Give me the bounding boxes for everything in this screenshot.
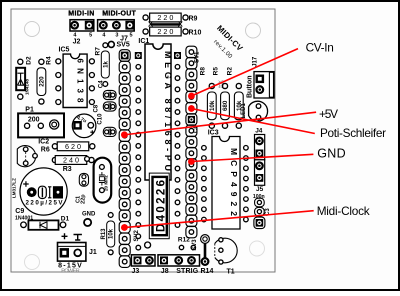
mounting hole top-right [246, 23, 261, 38]
resistor R8 10k [200, 67, 217, 129]
svg-text:3: 3 [115, 33, 118, 39]
ground mark [74, 235, 82, 241]
svg-text:240: 240 [63, 156, 79, 165]
svg-text:R5: R5 [213, 67, 220, 76]
svg-text:Midi-Clock: Midi-Clock [317, 204, 370, 218]
header SV5/SV2 pin column [119, 50, 130, 268]
svg-text:GND: GND [82, 212, 96, 218]
svg-text:IC3: IC3 [208, 129, 219, 136]
DAC IC3 MCP4922 [202, 137, 249, 230]
svg-text:5: 5 [129, 33, 132, 39]
transistor IC2 LM317 [17, 146, 37, 167]
image border frame [0, 0, 400, 2]
IC1 socket left pin column [135, 52, 142, 250]
svg-text:C8: C8 [94, 104, 100, 112]
mounting hole bottom-left [25, 255, 40, 270]
red marker CV-In pad [188, 93, 195, 100]
svg-text:220: 220 [39, 76, 46, 87]
svg-text:R2: R2 [227, 67, 234, 76]
resistor R3 240 [52, 156, 94, 173]
diode D1 1N4001 [15, 215, 69, 229]
IC1 socket right pin column [174, 52, 181, 227]
capacitor C8 [103, 102, 116, 111]
capacitor C9 220u/25V electrolytic [20, 168, 67, 215]
svg-text:T1: T1 [227, 268, 235, 275]
red marker Midi-Clock pad [121, 224, 128, 231]
mounting hole top-left [25, 22, 40, 37]
svg-text:+5V: +5V [319, 107, 338, 121]
connector J4 [255, 128, 265, 160]
solder pad [85, 157, 90, 162]
connector J7 [98, 20, 135, 43]
svg-text:R9: R9 [189, 15, 198, 22]
svg-text:MIDI-IN: MIDI-IN [68, 10, 94, 17]
red marker GND pad [188, 158, 195, 165]
svg-text:1N4148: 1N4148 [25, 78, 30, 95]
svg-text:1k: 1k [104, 61, 110, 68]
resistor R10 220 [143, 27, 201, 36]
button header [254, 72, 274, 98]
connector J8 / STRIG [158, 255, 200, 275]
svg-text:10k: 10k [108, 228, 114, 239]
svg-text:J4: J4 [255, 128, 263, 135]
svg-text:680: 680 [222, 100, 229, 111]
svg-text:IC2: IC2 [38, 138, 49, 145]
resistor R2 10k [227, 67, 244, 129]
svg-text:R4: R4 [46, 56, 53, 65]
svg-text:R3: R3 [63, 166, 72, 173]
svg-text:J2: J2 [73, 39, 81, 46]
callout line +5V [124, 112, 316, 135]
svg-text:220: 220 [157, 27, 173, 36]
svg-text:GND: GND [317, 147, 345, 161]
resistor R9 220 [143, 13, 198, 22]
wire jumper [149, 22, 183, 27]
capacitor C1 22p [75, 173, 88, 204]
svg-text:POWER: POWER [61, 269, 80, 275]
svg-text:IC1: IC1 [138, 38, 149, 45]
callout line GND [191, 154, 313, 161]
connector J5 [255, 160, 265, 193]
resistor R5 680 [213, 67, 230, 129]
callout line Poti-Schleifer [191, 109, 314, 134]
transistor T1 [215, 238, 237, 276]
svg-text:SV5: SV5 [117, 42, 130, 49]
resistor R14 [201, 235, 214, 275]
plus mark [62, 233, 68, 239]
svg-text:220µ/25V: 220µ/25V [26, 200, 64, 207]
barcode label D40226 [149, 173, 169, 239]
PCB board outline [11, 9, 275, 272]
resistor R4 220 [37, 56, 53, 104]
diode D2 1N4148 [16, 56, 32, 99]
svg-text:LM317LZ: LM317LZ [12, 178, 17, 198]
svg-text:C10: C10 [98, 113, 104, 125]
svg-text:R8: R8 [200, 67, 207, 76]
svg-text:Poti-Schleifer: Poti-Schleifer [320, 126, 386, 140]
svg-text:220: 220 [157, 13, 173, 22]
svg-text:C4: C4 [98, 80, 104, 88]
header SV1 pin column [186, 46, 197, 238]
optocoupler IC5 6N138 [56, 54, 95, 107]
svg-text:5: 5 [89, 33, 92, 39]
trimmer P1 200 [18, 107, 64, 138]
mounting hole bottom-right [250, 241, 265, 256]
crystal Q1 20MHz [94, 158, 112, 203]
solder pad [145, 242, 151, 248]
resistor R13 10k [101, 213, 115, 255]
LED LED1 [241, 101, 268, 121]
resistor R12 pads [179, 245, 183, 249]
connector J3 [131, 255, 155, 275]
callout line CV-In [191, 49, 298, 96]
svg-text:Button: Button [247, 75, 254, 98]
svg-text:D2: D2 [26, 56, 33, 65]
microcontroller IC1 MEGA 88/168-PU [145, 44, 173, 180]
svg-text:MIDI-OUT: MIDI-OUT [102, 10, 136, 17]
svg-text:J17: J17 [253, 56, 259, 67]
svg-text:CV-In: CV-In [306, 41, 334, 55]
svg-text:LED1: LED1 [241, 103, 247, 119]
svg-text:R12: R12 [178, 237, 190, 244]
svg-text:C9: C9 [15, 208, 24, 215]
svg-text:R14: R14 [201, 268, 214, 275]
capacitor C3 100n [253, 194, 271, 229]
capacitor C10 [103, 127, 116, 136]
capacitor C4 [103, 90, 116, 99]
resistor R7 1k [95, 43, 110, 87]
svg-text:IC5: IC5 [59, 46, 70, 53]
svg-text:R10: R10 [189, 29, 202, 36]
svg-text:R13: R13 [101, 228, 107, 240]
resistor R6 620 [41, 142, 95, 154]
svg-text:R7: R7 [95, 47, 102, 56]
solder pad [108, 41, 114, 47]
svg-text:20 MHz: 20 MHz [103, 174, 108, 191]
red marker +5V pad [121, 131, 128, 138]
svg-text:620: 620 [65, 142, 81, 151]
svg-text:J3: J3 [132, 268, 140, 275]
svg-text:200: 200 [28, 116, 40, 123]
svg-text:STRIG: STRIG [176, 268, 199, 275]
svg-text:22p: 22p [81, 194, 87, 204]
svg-text:D1: D1 [61, 215, 70, 222]
capacitor C6 4.7u electrolytic [72, 114, 96, 138]
svg-text:10k: 10k [209, 100, 216, 111]
svg-text:J8: J8 [161, 268, 169, 275]
red marker Poti pad [188, 105, 195, 112]
connector J2 [70, 20, 94, 46]
connector J1 power [58, 243, 97, 262]
svg-text:SV3: SV3 [192, 239, 198, 251]
svg-text:R6: R6 [41, 147, 50, 154]
svg-text:J5: J5 [256, 186, 264, 193]
callout line Midi-Clock [124, 211, 313, 228]
label GND testpoint [82, 212, 96, 226]
svg-text:J1: J1 [89, 249, 97, 256]
